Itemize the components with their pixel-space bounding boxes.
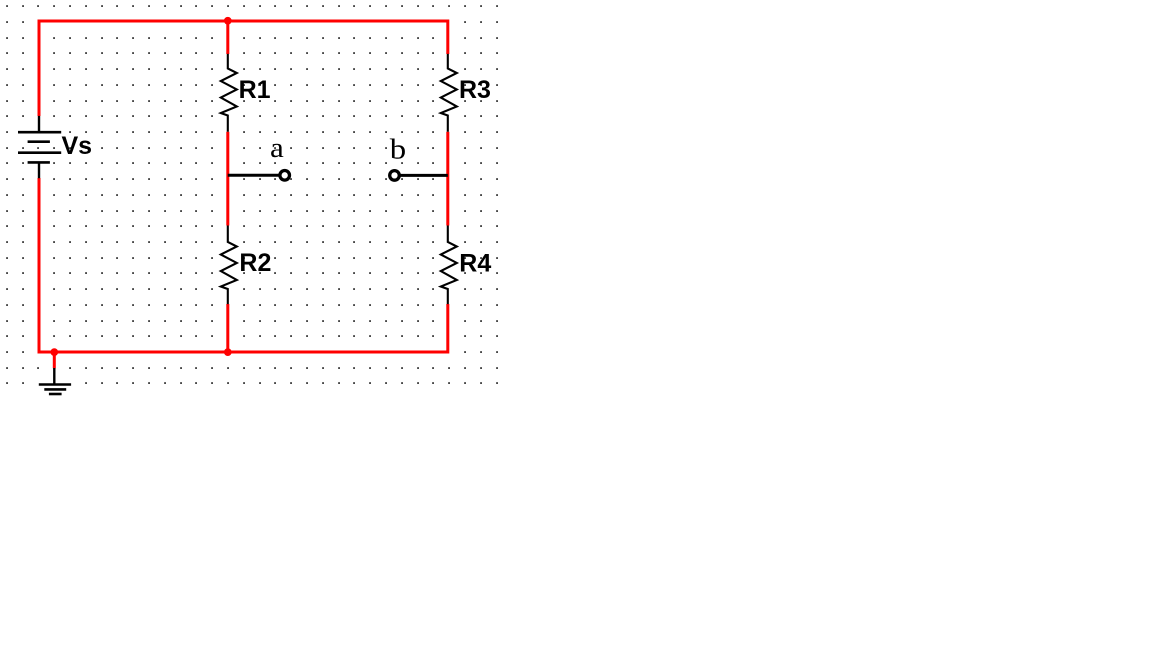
resistor R3 — [441, 54, 457, 132]
svg-text:R2: R2 — [239, 249, 271, 277]
wire: right branch between R3 and R4 — [446, 132, 449, 226]
node junction dot F (bottom, middle branch) — [224, 348, 232, 356]
terminal b (open circle) — [390, 171, 400, 181]
wire: ground stub (red) — [53, 352, 56, 368]
wire: terminal a lead (black) — [228, 174, 280, 177]
battery Vs — [18, 116, 61, 178]
svg-text:R1: R1 — [239, 76, 271, 104]
resistor R2 — [221, 226, 237, 305]
svg-text:R3: R3 — [459, 76, 491, 104]
svg-text:a: a — [270, 133, 284, 164]
svg-text:R4: R4 — [459, 250, 491, 278]
node junction dot E (bottom, ground stub) — [50, 348, 58, 356]
wire: left branch lower + bottom net + right branch lower (red) — [39, 178, 448, 352]
resistor R4 — [441, 226, 457, 305]
terminal a (open circle) — [280, 171, 290, 181]
svg-text:Vs: Vs — [62, 132, 93, 160]
wire: middle branch between R1 and R2 — [226, 132, 229, 226]
wire: terminal b lead (black) — [400, 174, 448, 177]
resistor R1 — [221, 54, 237, 132]
node junction dot B (top, middle branch) — [224, 17, 232, 25]
svg-text:b: b — [390, 135, 406, 166]
wire: middle branch bottom segment (R2 to bottom net) — [226, 304, 229, 352]
ground — [39, 368, 71, 394]
wire: middle branch top segment (node B to R1) — [226, 21, 229, 54]
wire: left branch upper + top net + right branch upper (red) — [39, 21, 448, 116]
